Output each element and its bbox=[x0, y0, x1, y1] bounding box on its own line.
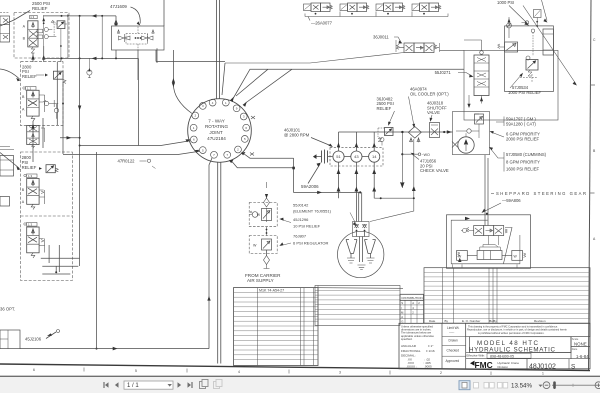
svg-text:51: 51 bbox=[336, 154, 341, 159]
svg-text:specified.: specified. bbox=[401, 337, 413, 341]
layout icon 4 bbox=[498, 382, 503, 388]
air labels right side bbox=[293, 203, 332, 246]
svg-text:47U2184: 47U2184 bbox=[207, 136, 226, 141]
svg-text:14: 14 bbox=[372, 154, 377, 159]
svg-text:1 3: 1 3 bbox=[28, 223, 33, 227]
wires group1 bottom bbox=[33, 46, 61, 62]
svg-text:−WO: −WO bbox=[422, 153, 430, 157]
pump group 59A2006 bbox=[313, 148, 383, 166]
slider bbox=[552, 384, 597, 386]
svg-text:5: 5 bbox=[135, 369, 137, 373]
svg-text:43: 43 bbox=[354, 154, 359, 159]
svg-text:AIR SUPPLY: AIR SUPPLY bbox=[247, 278, 274, 283]
wire into joint from top-right horizontal bbox=[233, 69, 465, 99]
effective with row bbox=[466, 353, 571, 359]
svg-text:45J1296: 45J1296 bbox=[293, 217, 309, 222]
svg-text:FMC: FMC bbox=[475, 360, 493, 370]
link line from parts table bbox=[318, 287, 403, 290]
zone ticks bottom bbox=[84, 368, 491, 376]
svg-text:A: A bbox=[401, 315, 403, 319]
svg-text:47J1609: 47J1609 bbox=[110, 4, 127, 9]
svg-text:1 3: 1 3 bbox=[30, 15, 34, 19]
svg-text:RELIEF: RELIEF bbox=[32, 6, 48, 11]
svg-text:RELIEF: RELIEF bbox=[22, 74, 37, 79]
svg-text:48J0102: 48J0102 bbox=[529, 364, 556, 371]
svg-text:JOINT: JOINT bbox=[209, 130, 222, 135]
47J1656 check valve label bbox=[420, 159, 449, 174]
sheet frame right border bbox=[589, 0, 592, 370]
svg-text:SHEPPARD STEERING GEAR: SHEPPARD STEERING GEAR bbox=[496, 191, 586, 196]
component box bottom-left bbox=[0, 330, 20, 349]
svg-text:13.54%: 13.54% bbox=[511, 383, 532, 390]
svg-text:.XXXX :: .XXXX : bbox=[406, 365, 417, 369]
drain wire from joint to tank checks bbox=[232, 154, 361, 193]
svg-text:CHECK VALVE: CHECK VALVE bbox=[420, 168, 449, 173]
port box above spool bbox=[26, 87, 37, 91]
svg-text:10 PSI RELIEF: 10 PSI RELIEF bbox=[293, 223, 321, 228]
svg-text:-----: ----- bbox=[449, 331, 454, 335]
wires around 47J1609 bbox=[43, 16, 118, 26]
arrow right on bottom wire bbox=[113, 347, 118, 351]
port box bbox=[30, 15, 38, 18]
svg-text:± 1°: ± 1° bbox=[428, 344, 434, 348]
valve group 1 (2500 PSI) bbox=[0, 1, 69, 58]
svg-text:Effective With:: Effective With: bbox=[467, 354, 486, 358]
steering valve bbox=[474, 226, 484, 236]
last page bbox=[188, 382, 192, 388]
port box 4 bbox=[27, 223, 38, 227]
zoom in bbox=[595, 382, 600, 389]
layout icon 3 two page bbox=[484, 382, 489, 388]
wires between group2 and group3 bbox=[33, 62, 63, 162]
svg-text:1000 PSI: 1000 PSI bbox=[497, 0, 514, 5]
7-way rotating joint U1 bbox=[188, 99, 255, 163]
bottom return wire bbox=[20, 348, 209, 350]
lever linkage bbox=[504, 228, 513, 264]
partial component boxes at left edge bbox=[0, 156, 14, 177]
svg-text:898-48-B00-05: 898-48-B00-05 bbox=[490, 354, 514, 358]
svg-text:Approved: Approved bbox=[446, 359, 460, 363]
zone tick marks right bbox=[590, 85, 596, 193]
svg-text:is prohibited without written: is prohibited without written permission… bbox=[478, 332, 545, 335]
parts table rows bbox=[234, 292, 319, 359]
air supply components bbox=[245, 182, 281, 283]
top solenoid valve row 26A0077 bbox=[304, 3, 449, 26]
wire into joint upper-right diagonal bbox=[236, 69, 292, 103]
zoom out bbox=[543, 382, 550, 389]
strainer funnels bbox=[346, 240, 357, 259]
svg-text:2000 PSI RELIEF: 2000 PSI RELIEF bbox=[506, 136, 539, 141]
page combo box bbox=[124, 381, 173, 389]
spool valve V1 bbox=[28, 21, 38, 47]
cooler diamond bbox=[408, 127, 421, 139]
svg-text:W: W bbox=[253, 244, 257, 248]
page-back icon bbox=[200, 380, 209, 389]
svg-text:Date: Date bbox=[429, 319, 436, 323]
svg-text:Scale: Scale bbox=[572, 337, 579, 341]
svg-text:1600 PSI RELIEF: 1600 PSI RELIEF bbox=[506, 167, 539, 172]
svg-text:Checked: Checked bbox=[447, 349, 460, 353]
svg-text:By: By bbox=[445, 319, 449, 323]
valve group 3+4 (2800 PSI) bbox=[0, 152, 72, 281]
oil cooler + relief + shutoff on main line bbox=[377, 87, 450, 174]
svg-text:2: 2 bbox=[440, 371, 442, 375]
svg-text:Revision: Revision bbox=[534, 319, 546, 323]
y154.5 wire to port5 bbox=[63, 151, 200, 154]
svg-text:By: By bbox=[493, 319, 497, 323]
svg-text:M1K 74-A54-27: M1K 74-A54-27 bbox=[259, 289, 284, 293]
copyright notice bbox=[466, 323, 590, 336]
coupling bbox=[322, 150, 328, 164]
zone numbers bottom bbox=[33, 368, 544, 376]
next page bbox=[178, 382, 182, 388]
spool V3 bbox=[27, 179, 39, 205]
svg-text:Limit Wt.: Limit Wt. bbox=[447, 326, 460, 330]
drain lollipop below y58 bbox=[88, 58, 90, 69]
priority labels bbox=[506, 117, 547, 172]
svg-text:7 - WAY: 7 - WAY bbox=[208, 118, 225, 123]
spool V4 bbox=[27, 227, 39, 253]
steering gear box bbox=[447, 215, 531, 268]
label engine rpm bbox=[284, 128, 310, 138]
valve left bbox=[505, 42, 518, 52]
gauge circles bbox=[526, 56, 530, 60]
steering box bottom stubs bbox=[453, 264, 518, 268]
svg-text:59A1280 ( CAT): 59A1280 ( CAT) bbox=[506, 122, 537, 127]
svg-text:1: 1 bbox=[542, 372, 544, 376]
55J0271 spool component bbox=[435, 40, 489, 104]
y145.5 wire to port6 bbox=[80, 141, 191, 146]
tall narrow cylinder bbox=[543, 29, 553, 55]
svg-text:55J0271: 55J0271 bbox=[435, 70, 452, 75]
relief RV3 bbox=[46, 165, 55, 173]
svg-text:8 GPM PRIORITY: 8 GPM PRIORITY bbox=[506, 159, 540, 164]
scale / date col bbox=[571, 337, 590, 359]
svg-text:1 / 1: 1 / 1 bbox=[127, 383, 139, 389]
toolbar bbox=[0, 376, 600, 393]
return line left of pipe bbox=[209, 158, 212, 349]
main pressure line bbox=[339, 131, 453, 133]
relief RV2 bbox=[53, 71, 63, 79]
svg-text:76J807: 76J807 bbox=[293, 233, 307, 238]
relief valve RV1 bbox=[57, 21, 65, 29]
47J1609 component bbox=[110, 4, 164, 50]
svg-text:DISTRIBUTION: DISTRIBUTION bbox=[402, 296, 423, 300]
wire top y63 from small box bbox=[157, 48, 225, 95]
middle column bbox=[442, 323, 466, 369]
check valves above tank bbox=[353, 222, 370, 237]
svg-text:—26A0077: —26A0077 bbox=[311, 21, 333, 26]
svg-text:NONE: NONE bbox=[574, 342, 587, 347]
label 57J0534 bbox=[508, 85, 541, 95]
x79.6 long vertical bbox=[79, 16, 81, 266]
right top assembly: 1000 PSI manifold bbox=[464, 0, 577, 120]
steering inlet pipes bbox=[485, 155, 488, 226]
pipe double line below joint down to frame bbox=[218, 162, 221, 364]
parts table columns bbox=[258, 288, 314, 366]
svg-text:6 PSI REGULATOR: 6 PSI REGULATOR bbox=[293, 241, 329, 246]
priority valve assembly bbox=[453, 95, 490, 155]
pivot plate bbox=[480, 245, 501, 251]
y58.4 wire bbox=[43, 50, 138, 146]
FMC logo row bbox=[526, 359, 528, 369]
tank circle bbox=[338, 231, 384, 277]
svg-text:.0005: .0005 bbox=[424, 365, 432, 369]
svg-text:RELIEF: RELIEF bbox=[377, 106, 392, 111]
spool V2 bbox=[27, 90, 39, 116]
first page button bbox=[104, 382, 119, 388]
steering gear labels bbox=[496, 191, 586, 203]
group2 second spool bbox=[27, 126, 45, 149]
bracket under solenoid row bbox=[305, 12, 448, 17]
svg-text:Division: Division bbox=[498, 365, 509, 369]
zone letters right margin bbox=[593, 38, 596, 241]
svg-text:RELIEF: RELIEF bbox=[22, 165, 37, 170]
pump suction/pressure stubs bbox=[339, 132, 375, 151]
svg-text:FRACTIONAL: FRACTIONAL bbox=[401, 349, 421, 353]
svg-text:Drawn: Drawn bbox=[449, 339, 458, 343]
enclosure bbox=[464, 50, 558, 120]
port box bbox=[27, 174, 38, 178]
sheet frame bottom border bbox=[0, 364, 590, 371]
layout icon 2 bbox=[474, 382, 479, 388]
y138 stub to bank bbox=[60, 137, 80, 139]
svg-text:—59A806: —59A806 bbox=[502, 198, 521, 203]
svg-text:57J0580 (CUMMINS): 57J0580 (CUMMINS) bbox=[506, 152, 547, 157]
svg-text:@ 2800 RPM: @ 2800 RPM bbox=[284, 133, 310, 138]
svg-text:55J0142: 55J0142 bbox=[293, 203, 309, 208]
wire from box right area down to y61.5->joint handled by y58.4; box right vertical bbox=[156, 0, 225, 62]
drain bus under pumps bbox=[401, 132, 405, 188]
valve group 2 (2800 PSI) bbox=[0, 62, 66, 126]
svg-text:1 3: 1 3 bbox=[28, 174, 33, 178]
cylinder bbox=[477, 251, 502, 260]
svg-text:6: 6 bbox=[33, 368, 35, 372]
svg-text:45J2106: 45J2106 bbox=[25, 337, 42, 342]
anticav mark bbox=[452, 142, 458, 148]
layout icon selected bbox=[459, 381, 470, 390]
svg-text:ROTATING: ROTATING bbox=[205, 124, 228, 129]
svg-text:A: A bbox=[412, 301, 414, 305]
svg-text:E. O. Number: E. O. Number bbox=[462, 319, 480, 323]
svg-text:S: S bbox=[571, 363, 575, 370]
check valve top bbox=[507, 23, 512, 28]
36J0011 valve bbox=[373, 35, 440, 53]
svg-text:S: S bbox=[401, 301, 403, 305]
top small solenoid + gauges bbox=[534, 10, 542, 18]
relief 36J0482 bbox=[377, 96, 394, 111]
arrow up on return line bbox=[207, 296, 210, 301]
page-fwd icon (disabled) bbox=[214, 380, 223, 389]
svg-text:1000 PSI RELIEF: 1000 PSI RELIEF bbox=[508, 90, 541, 95]
svg-text:4: 4 bbox=[238, 370, 240, 374]
svg-text:Date: Date bbox=[572, 347, 578, 351]
group3/4 connection wires bbox=[41, 245, 80, 274]
x173.4 wire arc to port2 bbox=[173, 50, 192, 114]
wire from 36J0011 to right assembly bbox=[440, 49, 465, 51]
shutoff valve 48J0318 bbox=[427, 101, 447, 116]
mid check circles bbox=[37, 29, 43, 33]
svg-text:36J0011: 36J0011 bbox=[373, 35, 389, 40]
center pipe pair into tank bbox=[360, 237, 363, 263]
svg-text:ANGULAR: ANGULAR bbox=[401, 344, 417, 348]
envelope bbox=[14, 13, 69, 59]
long wire left from 36J0011 area bbox=[225, 53, 404, 64]
svg-text:(ELEMENT 76J0551): (ELEMENT 76J0551) bbox=[293, 208, 332, 213]
svg-text:36 OPT.: 36 OPT. bbox=[0, 307, 15, 312]
model box bbox=[470, 337, 572, 353]
pipe double line above joint bbox=[216, 0, 219, 99]
relief 1000psi bbox=[526, 60, 538, 71]
svg-text:3: 3 bbox=[339, 371, 341, 375]
svg-text:47R0122: 47R0122 bbox=[118, 159, 136, 164]
partial spool far left bbox=[0, 16, 10, 42]
svg-text:1-6-84: 1-6-84 bbox=[576, 354, 589, 359]
svg-text:VALVE: VALVE bbox=[427, 110, 440, 115]
svg-text:± 1/16: ± 1/16 bbox=[426, 349, 435, 353]
svg-text:59A2006: 59A2006 bbox=[301, 184, 319, 189]
svg-text:OIL COOLER (OPT.): OIL COOLER (OPT.) bbox=[410, 91, 449, 96]
tolerance block bbox=[401, 325, 434, 341]
